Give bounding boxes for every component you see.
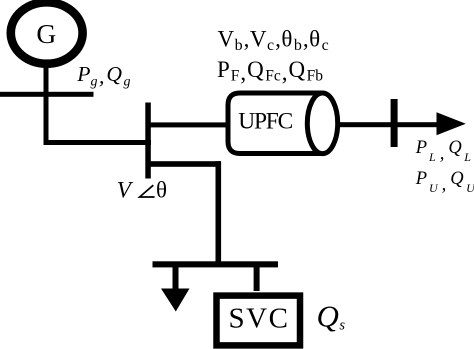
bus B1 (vertical busbar) xyxy=(145,103,151,179)
wire: SVC branch (vertical) xyxy=(216,161,222,264)
bus B2 (bottom busbar) xyxy=(153,261,279,267)
generator G circle xyxy=(11,2,83,63)
ground arrow xyxy=(161,289,190,312)
svg-text:PL,QL: PL,QL xyxy=(415,138,472,164)
bus tick at load xyxy=(391,99,398,147)
wire: left bus stub through generator lead xyxy=(0,92,94,97)
svg-text:PU,QU: PU,QU xyxy=(415,169,474,195)
svg-text:PF,QFc,QFb: PF,QFc,QFb xyxy=(217,57,323,85)
wire: bus B1 to SVC branch (horizontal) xyxy=(150,161,221,167)
UPFC cylinder body xyxy=(228,93,323,154)
SVC box xyxy=(217,296,301,346)
wire: generator lead (vertical) xyxy=(44,62,49,145)
wire: bus B2 to SVC xyxy=(254,266,260,291)
svg-text:Pg,Qg: Pg,Qg xyxy=(76,62,130,90)
wire: UPFC to load arrow xyxy=(338,122,437,127)
svg-text:Qs: Qs xyxy=(317,299,346,334)
svg-text:SVC: SVC xyxy=(229,302,290,334)
UPFC cylinder right end ellipse xyxy=(307,93,337,154)
arrow to load xyxy=(437,112,466,135)
wire: ground stub xyxy=(173,266,179,289)
svg-text:G: G xyxy=(36,18,56,49)
svg-text:UPFC: UPFC xyxy=(238,109,292,135)
svg-text:V: V xyxy=(117,178,134,204)
wire: bus B1 to UPFC xyxy=(150,122,228,127)
wire: generator to bus B1 (horizontal) xyxy=(44,140,152,145)
svg-text:θ: θ xyxy=(156,178,167,203)
angle symbol of V angle theta xyxy=(140,185,155,197)
svg-text:Vb,Vc,θb,θc: Vb,Vc,θb,θc xyxy=(218,26,329,54)
